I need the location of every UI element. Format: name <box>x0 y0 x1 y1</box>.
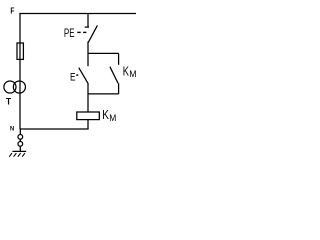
wire PE to junction A <box>87 42 89 54</box>
wire junction A to E button <box>87 53 89 66</box>
node N <box>10 125 15 133</box>
svg-text:N: N <box>10 125 15 133</box>
fuse <box>17 43 23 59</box>
svg-text:M: M <box>129 69 136 79</box>
ground <box>9 151 26 156</box>
plug-socket terminal lower <box>18 142 23 147</box>
junction A branch wire <box>88 52 119 54</box>
svg-text:E: E <box>70 71 76 83</box>
svg-text:T: T <box>6 96 12 106</box>
wire N to terminal <box>19 129 21 135</box>
wire top rail F <box>19 13 136 15</box>
plug-socket terminal upper <box>18 135 23 140</box>
wire between terminals <box>19 139 21 141</box>
wire KM contact to junction B <box>118 83 120 94</box>
wire terminal to earth <box>19 146 21 151</box>
wire branch to KM contact <box>118 53 120 64</box>
wire left rail <box>19 14 21 130</box>
pushbutton PE (NC stop button) <box>64 25 98 42</box>
svg-text:M: M <box>109 113 116 123</box>
transformer T <box>4 81 26 107</box>
node F <box>10 6 14 16</box>
wire bottom rail N <box>20 128 89 130</box>
wire coil to bottom rail <box>87 120 89 129</box>
junction B wire <box>88 93 119 95</box>
wire top rail to PE button <box>87 14 89 27</box>
coil KM <box>77 109 116 123</box>
contact KM (NO auxiliary) <box>110 65 137 83</box>
pushbutton E (NO start button) <box>70 68 88 84</box>
wire E to junction B <box>87 83 89 112</box>
svg-text:F: F <box>10 6 14 16</box>
svg-text:PE: PE <box>64 28 75 41</box>
